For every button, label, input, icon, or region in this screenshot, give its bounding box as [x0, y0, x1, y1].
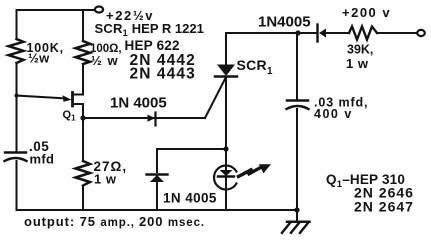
ground	[282, 222, 310, 233]
label 100K 1/2w	[27, 41, 64, 66]
wire left vertical middle	[16, 63, 18, 152]
capacitor C1 .05 mfd	[5, 153, 27, 162]
label +200 v	[342, 5, 391, 20]
label 39K 1w	[346, 43, 373, 72]
svg-text:1N4005: 1N4005	[258, 14, 311, 31]
svg-text:1 w: 1 w	[94, 172, 117, 187]
node cap junction	[295, 30, 300, 35]
transistor Q1 UJT	[17, 93, 84, 119]
svg-text:HEP 622: HEP 622	[125, 38, 180, 53]
svg-text:1 w: 1 w	[346, 56, 369, 71]
label D2 1N 4005	[163, 191, 217, 206]
wire gate diagonal	[205, 78, 226, 118]
wire left vertical upper	[16, 10, 18, 39]
label D3 1N4005	[258, 14, 311, 31]
svg-text:1N 4005: 1N 4005	[110, 95, 167, 112]
label 27 ohm 1w	[94, 159, 128, 187]
node junction B1/wire	[80, 115, 85, 120]
terminal +200V	[417, 30, 425, 36]
svg-text:400 v: 400 v	[314, 107, 353, 121]
wire SCR anode	[225, 33, 227, 65]
wire bottom bus	[17, 209, 298, 211]
label .05 mfd	[29, 139, 54, 167]
diode D3 1N4005	[318, 25, 350, 42]
diode D1 1N4005	[148, 113, 156, 126]
capacitor C2 .03 mfd	[287, 101, 309, 110]
wire capacitor drop	[296, 33, 298, 100]
label D1 1N 4005	[110, 95, 167, 112]
svg-text:2N 4443: 2N 4443	[130, 66, 196, 83]
resistor 39K	[349, 27, 377, 40]
terminal +22.5V	[95, 7, 103, 13]
wire to right terminal	[377, 32, 417, 34]
wire second vertical top	[82, 10, 84, 41]
flash tube lamp	[214, 149, 236, 210]
label .03 mfd 400v	[314, 96, 368, 122]
wire top right bus	[226, 32, 316, 34]
svg-text:½w: ½w	[28, 51, 50, 66]
label SCR1	[237, 57, 273, 77]
light emission arrows	[239, 164, 272, 176]
svg-text:mfd: mfd	[30, 152, 55, 167]
wire freewheel left drop	[156, 149, 158, 172]
label 100 ohm 1/2w	[90, 43, 122, 68]
svg-text:1N 4005: 1N 4005	[163, 191, 217, 206]
node emitter tee	[15, 94, 19, 98]
wire left vertical lower	[16, 161, 18, 210]
wire freewheel top	[157, 148, 226, 150]
wire 27ohm to bottom	[82, 186, 84, 211]
node cathode junction	[223, 146, 228, 151]
svg-text:½ w: ½ w	[91, 53, 119, 68]
wire gate run	[83, 117, 205, 119]
SCR1	[215, 65, 237, 150]
wire top bus to +22.5V terminal	[17, 9, 95, 11]
label +22.5V	[106, 8, 154, 23]
resistor 100 ohm	[76, 41, 91, 64]
svg-text:39K,: 39K,	[347, 43, 373, 57]
label output caption	[24, 214, 205, 229]
svg-text:Q1: Q1	[63, 109, 77, 123]
wire base2 drop	[73, 64, 84, 95]
svg-text:output: 75 amp., 200 msec.: output: 75 amp., 200 msec.	[24, 214, 205, 229]
resistor 100K	[9, 39, 24, 63]
svg-text:SCR1: SCR1	[237, 57, 273, 77]
wire 27ohm vertical	[82, 118, 84, 161]
svg-text:+200 v: +200 v	[342, 5, 391, 20]
resistor 27 ohm	[76, 161, 91, 186]
label Q1	[63, 109, 77, 123]
diode D2 1N 4005	[147, 175, 168, 211]
svg-text:SCR1HEP R 1221: SCR1HEP R 1221	[95, 21, 204, 38]
label Q1 types	[326, 172, 414, 215]
wire capacitor to ground	[296, 109, 298, 222]
label SCR1 part numbers	[95, 21, 204, 83]
node ground junction	[294, 207, 299, 212]
svg-text:2N 2647: 2N 2647	[354, 199, 414, 215]
